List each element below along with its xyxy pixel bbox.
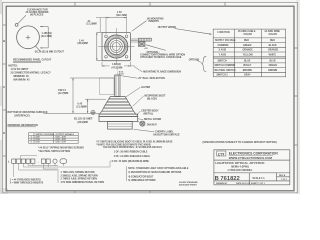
options note block <box>128 167 189 182</box>
svg-text:1 TWO AXIS, SPRING RETURN: 1 TWO AXIS, SPRING RETURN <box>61 171 95 174</box>
anodized finish note <box>179 181 198 187</box>
svg-text:(11.2)MM: (11.2)MM <box>87 23 97 26</box>
axis option list <box>61 171 105 184</box>
svg-text:5.5V: 5.5V <box>36 142 41 144</box>
svg-text:(METAL): (METAL) <box>144 112 154 115</box>
corner holes <box>105 35 128 58</box>
svg-text:SWITCH 2: SWITCH 2 <box>217 75 229 77</box>
dim text .44 <box>87 20 97 26</box>
svg-text:(38.1 MM): (38.1 MM) <box>116 14 127 17</box>
svg-text:ORANGE: ORANGE <box>268 49 279 52</box>
svg-text:1 = #4 THREADED INSERTS: 1 = #4 THREADED INSERTS <box>10 178 41 181</box>
svg-text:RECOMMENDED PANEL CUTOUT: RECOMMENDED PANEL CUTOUT <box>13 59 52 62</box>
svg-text:ON BOTTOM SURFACE: ON BOTTOM SURFACE <box>153 133 180 136</box>
svg-text:0.5V - 4.0V: 0.5V - 4.0V <box>56 136 67 139</box>
svg-text:ANODIZED FINISH: ANODIZED FINISH <box>179 184 197 187</box>
svg-text:1 OF: 26 AWG RIBBON CABLE: 1 OF: 26 AWG RIBBON CABLE <box>114 151 148 154</box>
svg-text:X AXIS: X AXIS <box>219 49 227 52</box>
svg-text:4 P2 NON OMNIDIRECTIONAL RETUR: 4 P2 NON OMNIDIRECTIONAL RETURN <box>61 181 105 184</box>
svg-text:SWITCH: SWITCH <box>218 61 228 63</box>
wire exit lines <box>131 39 139 42</box>
leader mounting inserts <box>132 21 147 32</box>
output wires label <box>158 26 177 29</box>
svg-text:BROWN: BROWN <box>268 70 277 72</box>
svg-text:FUNCTION: FUNCTION <box>218 32 230 34</box>
svg-text:GRAY: GRAY <box>244 74 251 77</box>
datum symbol <box>91 110 95 114</box>
svg-text:L7000-N24 MODEL: L7000-N24 MODEL <box>228 168 253 172</box>
svg-text:(12.7): (12.7) <box>119 74 124 76</box>
threaded bushing <box>108 122 133 130</box>
svg-text:3 THREE AXIS, SPRING RETURN: 3 THREE AXIS, SPRING RETURN <box>61 178 98 181</box>
mounting hole <box>15 24 18 27</box>
svg-text:* #4 SELF TAPPING MOUNTING SCR: * #4 SELF TAPPING MOUNTING SCREWS <box>38 146 84 149</box>
inserts list <box>10 178 44 184</box>
knurled ring outer <box>105 35 128 58</box>
silicone boot note <box>96 141 173 150</box>
svg-text:4) CONDUCTOR BOOT: 4) CONDUCTOR BOOT <box>128 176 154 179</box>
small dim .44 line <box>96 18 106 33</box>
svg-text:CTI: CTI <box>218 151 225 156</box>
svg-text:* NEUTRAL SWITCH OPTION: * NEUTRAL SWITCH OPTION <box>38 150 70 153</box>
dimension 1.188 SQ <box>40 27 48 48</box>
svg-text:5) UNMARKED OPTIONS: 5) UNMARKED OPTIONS <box>128 179 156 182</box>
svg-text:1) DESCRIPTION OF NON-STANDARD: 1) DESCRIPTION OF NON-STANDARD OPTIONS <box>128 171 182 174</box>
svg-text:(30.2 MM): (30.2 MM) <box>41 35 52 38</box>
label cherry label <box>153 130 180 136</box>
svg-text:(36.6)MM: (36.6)MM <box>78 42 88 45</box>
svg-text:(INTERFACE): (INTERFACE) <box>15 114 30 117</box>
svg-text:RED: RED <box>244 40 249 42</box>
center body <box>99 117 138 122</box>
svg-text:BROWN: BROWN <box>243 70 252 72</box>
svg-text:ELECTRONICS CORPORATION: ELECTRONICS CORPORATION <box>229 151 279 155</box>
svg-text:DRAWN BY: DRAWN BY <box>216 182 228 185</box>
wire table grid <box>213 29 286 77</box>
svg-text:* IF SWITCHED SILICONE BOOT IS: * IF SWITCHED SILICONE BOOT IS USED, PLA… <box>96 141 173 144</box>
dim text 1.50 <box>116 11 127 17</box>
svg-text:2 SINGLE AXIS, SPRING RETURN: 2 SINGLE AXIS, SPRING RETURN <box>61 174 98 177</box>
svg-text:OUTPUT SIGNALS: OUTPUT SIGNALS <box>56 133 75 136</box>
svg-text:MAXIMUM: 42: MAXIMUM: 42 <box>14 79 31 82</box>
flange square <box>102 32 131 60</box>
stick dia note <box>119 72 124 76</box>
box leader lines <box>14 156 112 184</box>
svg-text:NOTE: STANDARD LIGHT GRAY OPTI: NOTE: STANDARD LIGHT GRAY OPTIONS AVAILA… <box>128 167 189 170</box>
mounting surface line <box>44 112 100 114</box>
centerlines flange <box>98 28 134 65</box>
recommended panel cutout title <box>13 59 52 62</box>
svg-text:0.5V - 4.5V: 0.5V - 4.5V <box>56 138 67 141</box>
svg-text:B: B <box>3 39 5 43</box>
svg-text:Ø1.26 (32.0) MIN CUTOUT: Ø1.26 (32.0) MIN CUTOUT <box>35 51 65 54</box>
svg-text:25° BALL DEFLECTION: 25° BALL DEFLECTION <box>138 77 165 80</box>
svg-text:(47.8) MM: (47.8) MM <box>112 67 123 70</box>
svg-text:THE DETAILS PROPERTIES - IF ST: THE DETAILS PROPERTIES - IF STAINLESS DE… <box>103 146 162 149</box>
label center body <box>141 109 159 115</box>
leader body to connector <box>138 121 140 123</box>
svg-text:ORDERING INFORMATION: ORDERING INFORMATION <box>8 124 39 127</box>
svg-text:MOUNTING FLANGE DIMENSION: MOUNTING FLANGE DIMENSION <box>143 71 181 74</box>
svg-text:B 761822: B 761822 <box>215 176 240 182</box>
svg-text:ORANGE: ORANGE <box>243 49 254 52</box>
dim 0.45 <box>77 102 87 108</box>
leader optional connector <box>146 45 166 51</box>
mounting inserts note <box>147 17 164 23</box>
svg-text:REV A: REV A <box>279 174 286 177</box>
bottom mounting surface label <box>8 111 48 117</box>
svg-text:YELLOW: YELLOW <box>243 54 254 56</box>
svg-text:GAITER: GAITER <box>141 86 150 89</box>
svg-text:C: C <box>3 85 5 89</box>
svg-text:BLACK: BLACK <box>269 44 277 47</box>
connector block <box>138 42 145 47</box>
svg-text:SHEET 1 OF 1: SHEET 1 OF 1 <box>251 183 266 185</box>
svg-text:METAL COVER: METAL COVER <box>144 118 161 121</box>
svg-text:3 OF: 24 AWG (REVERSED) WIRE: 3 OF: 24 AWG (REVERSED) WIRE <box>112 160 149 163</box>
ribbon connector <box>138 38 151 41</box>
svg-text:D: D <box>3 131 5 135</box>
border zone ticks <box>3 2 298 192</box>
panel cutout circle <box>17 26 40 49</box>
svg-text:* WHITE FDA SILICONE BOOT/WHIT: * WHITE FDA SILICONE BOOT/WHITE PVC KNOB <box>96 143 151 146</box>
left vertical dim line <box>97 32 102 60</box>
dim text 1.88 SQ <box>112 63 123 69</box>
outer border <box>3 2 298 192</box>
cutout diameter note <box>35 51 65 54</box>
svg-text:SILVER STANDARD: SILVER STANDARD <box>179 181 198 184</box>
optional connector note <box>140 51 185 59</box>
svg-text:4.5V: 4.5V <box>36 136 41 139</box>
bellows boot <box>100 97 136 115</box>
svg-text:2 = 6MM THREADED INSERTS: 2 = 6MM THREADED INSERTS <box>10 181 44 184</box>
inner border <box>6 6 294 191</box>
dim line 1.50 <box>106 17 127 19</box>
svg-text:(4) PLACES: (4) PLACES <box>30 13 44 16</box>
svg-text:WWW.CTIELECTRONICS.COM: WWW.CTIELECTRONICS.COM <box>229 156 273 160</box>
svg-text:BLUE: BLUE <box>244 61 251 63</box>
svg-text:-: - <box>38 160 39 164</box>
svg-text:SUPPLY VOLTAGE: SUPPLY VOLTAGE <box>36 133 55 136</box>
CTI logo <box>217 151 226 156</box>
svg-text:RED: RED <box>270 40 275 42</box>
title block frame <box>214 150 290 185</box>
svg-text:NEUTRAL SWITCH: NEUTRAL SWITCH <box>215 69 236 72</box>
svg-text:(BLACK): (BLACK) <box>147 97 157 100</box>
phantom box <box>100 78 115 95</box>
svg-text:24 AWG WIRE: 24 AWG WIRE <box>265 30 281 33</box>
svg-text:GREEN: GREEN <box>243 45 252 47</box>
zone letters <box>3 39 5 135</box>
svg-text:(11.4)MM: (11.4)MM <box>77 105 87 108</box>
svg-text:COLOR: COLOR <box>244 34 253 36</box>
svg-text:(SPECIFICATIONS SUBJECT TO CHA: (SPECIFICATIONS SUBJECT TO CHANGE WITHOU… <box>203 140 277 144</box>
svg-text:SUPPLY VOLTAGE: SUPPLY VOLTAGE <box>215 39 236 42</box>
svg-text:(28.6)MM: (28.6)MM <box>78 121 88 124</box>
svg-text:26 AWG CABLE: 26 AWG CABLE <box>238 30 256 33</box>
page background <box>0 0 300 194</box>
svg-text:JAM NUT: JAM NUT <box>147 123 158 126</box>
self tapping note <box>38 146 84 153</box>
svg-text:2 OF: 24 AWG SHIELDED CABLE: 2 OF: 24 AWG SHIELDED CABLE <box>114 155 151 158</box>
svg-text:WHITE: WHITE <box>269 54 277 56</box>
label neoprene boot <box>145 94 167 100</box>
hole spacing extension lines <box>106 17 127 34</box>
svg-text:Y AXIS: Y AXIS <box>219 53 227 56</box>
leader output wires to table <box>175 29 212 35</box>
bottom dim 1.88 SQ <box>102 62 135 67</box>
leader to screw note <box>18 15 27 24</box>
center cross <box>26 35 30 39</box>
dim CW 0.5 <box>58 89 68 95</box>
scan noise left edge <box>0 0 300 194</box>
svg-text:OPTIONS: OPTIONS <box>189 60 200 62</box>
thread callout <box>74 118 93 124</box>
svg-text:OUTPUT WIRES: OUTPUT WIRES <box>158 26 177 29</box>
svg-text:COLOR: COLOR <box>269 34 278 36</box>
stick shaft <box>115 75 120 97</box>
table brace <box>202 56 207 72</box>
ordering table <box>29 133 78 144</box>
dim text 1.188 <box>41 32 52 38</box>
svg-text:DATE 09-13-11: DATE 09-13-11 <box>236 182 251 185</box>
side connector circle <box>140 121 145 126</box>
svg-text:GREEN: GREEN <box>269 65 278 67</box>
svg-text:1 OF 1: 1 OF 1 <box>281 179 288 181</box>
dim text 1.44 <box>78 39 88 45</box>
svg-text:ATTACHED TO METAL COVER AVAIL: ATTACHED TO METAL COVER AVAIL <box>140 56 183 59</box>
svg-text:0.5V - 5.0V: 0.5V - 5.0V <box>56 142 67 144</box>
screw clearance note <box>26 8 49 16</box>
inner rings <box>108 38 124 54</box>
mounting flange plate <box>99 114 138 117</box>
svg-text:(12.7)MM: (12.7)MM <box>58 92 68 95</box>
svg-text:SWITCH COMMON: SWITCH COMMON <box>215 65 236 67</box>
svg-text:VIOLET: VIOLET <box>243 65 252 67</box>
leader to cutout dia <box>36 46 41 51</box>
svg-text:COMMON: COMMON <box>218 45 229 47</box>
knurl hatch <box>105 35 128 58</box>
wire table text <box>215 30 281 76</box>
centerline <box>117 64 119 78</box>
svg-text:INSERTS: INSERTS <box>149 20 160 23</box>
svg-text:BLUE: BLUE <box>270 61 277 63</box>
svg-text:SCALE 1:1: SCALE 1:1 <box>252 177 265 180</box>
wire option list <box>112 151 151 163</box>
